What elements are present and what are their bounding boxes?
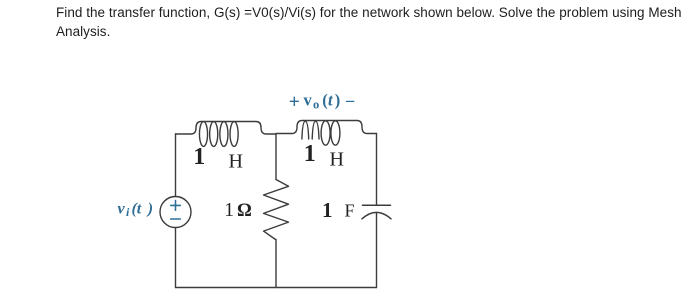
- inductor L2 loop 3: [321, 121, 330, 145]
- wire: right rail upper: [376, 134, 378, 206]
- wire: middle rail upper: [275, 134, 277, 180]
- wire: right rail lower: [376, 213, 378, 288]
- svg-text:1: 1: [193, 144, 205, 170]
- wire: left rail bottom segment: [175, 228, 177, 288]
- svg-text:1: 1: [322, 198, 333, 222]
- svg-text:vi(t): vi(t): [118, 200, 154, 219]
- wire: bottom rail: [176, 287, 377, 289]
- inductor L1 body: [176, 122, 277, 135]
- voltage source vi(t) circle: [160, 197, 191, 228]
- inductor L2 loop 4: [331, 121, 340, 145]
- inductor L1 loop 1: [199, 122, 207, 147]
- wire: left rail top segment: [175, 134, 177, 197]
- inductor L1 loop 3: [220, 122, 228, 147]
- svg-text:Ω: Ω: [237, 201, 252, 221]
- wire: middle rail lower: [275, 240, 277, 288]
- svg-text:H: H: [330, 148, 344, 170]
- resistor R zigzag: [264, 180, 289, 240]
- svg-text:H: H: [229, 151, 243, 173]
- capacitor top plate: [363, 204, 391, 206]
- svg-text:F: F: [345, 201, 355, 221]
- voltage source minus sign: [171, 218, 181, 220]
- inductor L1 loop 2: [210, 122, 218, 147]
- inductor L2 loop 2: [312, 121, 319, 139]
- voltage source plus sign: [171, 201, 181, 211]
- svg-text:1: 1: [304, 141, 316, 167]
- inductor L2 loop 1: [302, 121, 309, 139]
- svg-text:1: 1: [224, 200, 234, 221]
- inductor L2 body: [276, 121, 377, 134]
- svg-text:+vo(t)–: +vo(t)–: [289, 91, 355, 114]
- problem statement text: [56, 4, 696, 40]
- inductor L1 loop 4: [230, 122, 238, 147]
- capacitor curved bottom plate: [362, 212, 391, 218]
